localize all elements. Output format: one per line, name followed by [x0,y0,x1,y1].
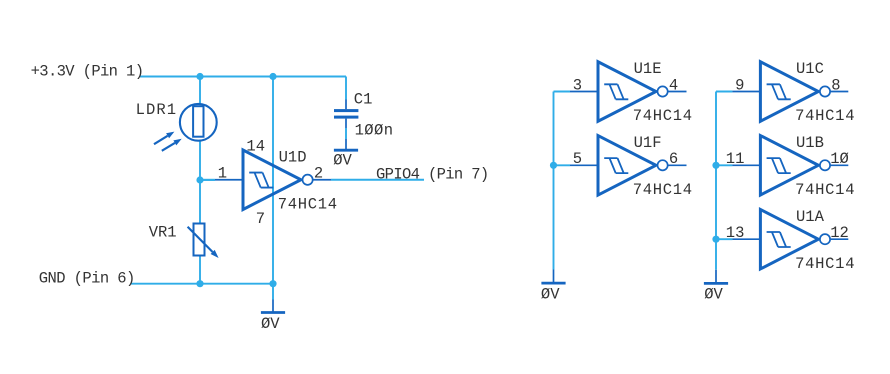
svg-text:U1E: U1E [634,60,662,78]
svg-text:1Ø: 1Ø [830,150,849,168]
svg-text:3: 3 [573,76,582,94]
svg-text:74HC14: 74HC14 [795,181,854,199]
svg-text:ØV: ØV [541,286,560,304]
svg-text:74HC14: 74HC14 [795,107,854,125]
svg-text:+3.3V (Pin 1): +3.3V (Pin 1) [31,62,144,80]
svg-text:GND (Pin 6): GND (Pin 6) [39,270,136,288]
svg-text:C1: C1 [354,91,373,109]
svg-text:13: 13 [726,224,745,242]
svg-text:11: 11 [726,150,745,168]
svg-text:5: 5 [573,150,582,168]
svg-text:GPIO4 (Pin 7): GPIO4 (Pin 7) [376,166,489,184]
svg-text:6: 6 [669,150,678,168]
svg-text:VR1: VR1 [149,224,177,242]
svg-text:8: 8 [831,76,840,94]
svg-text:U1B: U1B [796,134,824,152]
svg-text:ØV: ØV [333,151,352,169]
svg-text:9: 9 [735,76,744,94]
svg-text:74HC14: 74HC14 [795,255,854,273]
svg-text:74HC14: 74HC14 [278,195,337,213]
svg-text:74HC14: 74HC14 [633,181,692,199]
svg-text:1ØØn: 1ØØn [355,121,393,139]
svg-text:ØV: ØV [704,285,723,303]
svg-text:U1F: U1F [634,134,662,152]
svg-text:12: 12 [830,224,849,242]
svg-text:14: 14 [246,138,265,156]
svg-text:U1C: U1C [796,60,824,78]
svg-text:74HC14: 74HC14 [633,107,692,125]
svg-text:2: 2 [314,165,323,183]
svg-text:1: 1 [218,165,227,183]
svg-text:U1A: U1A [796,208,825,226]
svg-text:LDR1: LDR1 [136,101,177,119]
svg-text:U1D: U1D [279,148,307,166]
svg-text:7: 7 [256,210,265,228]
svg-text:4: 4 [669,76,678,94]
svg-text:ØV: ØV [261,315,280,333]
